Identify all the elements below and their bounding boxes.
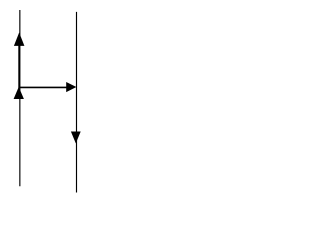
- arrowhead up A1 (current direction, left wire top): [14, 33, 25, 46]
- arrowhead down A4 (current direction, right wire): [71, 132, 81, 144]
- wire (horizontal vector shaft): [19, 86, 67, 88]
- wire W1 (left conductor): [19, 10, 21, 186]
- wire (vector shaft on left conductor): [18, 45, 20, 88]
- arrowhead up A2 (current direction, left wire at junction): [14, 87, 24, 99]
- arrowhead right A3 (horizontal vector tip at right wire): [66, 82, 76, 92]
- wire W2 (right conductor): [76, 12, 78, 193]
